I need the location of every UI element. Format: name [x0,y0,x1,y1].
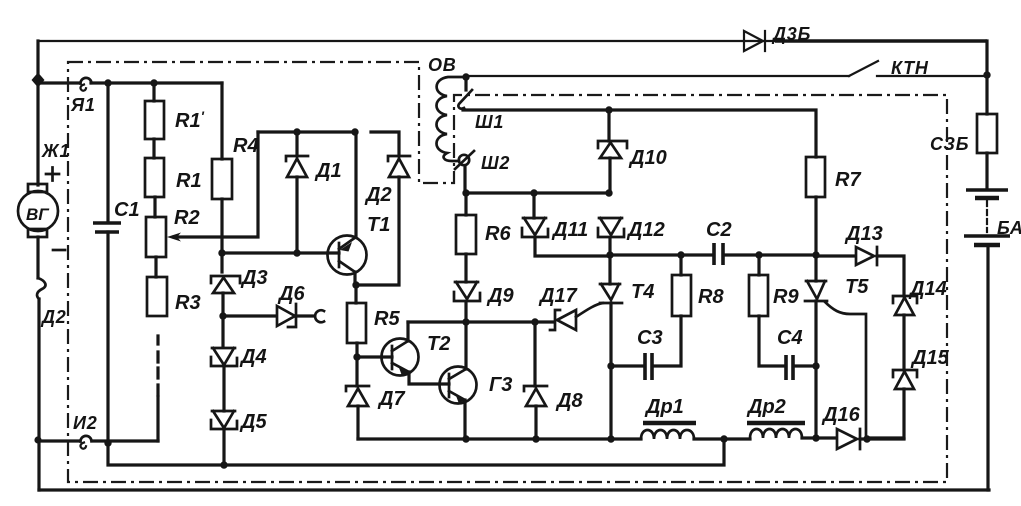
wire: Д2 top stub from bus [371,132,399,156]
wire: Д1 lower lead [295,177,298,253]
wire: R5 bottom to node [355,343,358,357]
zener Д10 [598,141,627,158]
node R5 bottom / T2 base [353,353,360,360]
svg-text:С4: С4 [777,327,803,349]
wire: Д7 bottom to ground rail corner [356,406,359,439]
svg-text:Ж1: Ж1 [41,141,70,161]
svg-text:Д4: Д4 [239,346,267,368]
label R1' [175,108,205,132]
label СЗБ [930,134,969,154]
label Д1 [314,160,342,182]
resistor R3 [147,277,167,316]
svg-text:R8: R8 [698,286,724,308]
label T4 [631,281,654,303]
node T4/C3 [607,362,614,369]
svg-text:ВГ: ВГ [26,205,50,224]
label Др1 [644,396,684,418]
svg-text:Ш2: Ш2 [481,153,510,173]
svg-text:С2: С2 [706,219,732,241]
diode Д7 [346,386,369,406]
label Д8 [555,390,583,412]
wire: T5 column leads [814,255,817,438]
node T1 emitter / R5 top [352,281,359,288]
svg-text:Др1: Др1 [644,396,684,418]
svg-text:Д11: Д11 [551,219,588,241]
svg-text:Д15: Д15 [910,347,950,369]
switch КТН blade [849,61,878,76]
wire: T2 collector up to y322 bus [406,322,409,341]
svg-text:R1': R1' [175,108,205,132]
node Др1-Др2 link / return riser [720,435,727,442]
wire: base wire y253 from R4 column to T1 base [222,251,339,254]
svg-text:Др2: Др2 [746,396,786,418]
svg-text:Д3: Д3 [240,267,268,289]
node T4 column on C2 bus [606,251,613,258]
label Д3Б [771,24,811,44]
wire: R2 wiper tap line with arrow [167,132,258,242]
wire: C4 to T5 column [794,364,816,367]
resistor R9 [749,275,768,316]
label Д13 [844,223,883,245]
svg-text:ОВ: ОВ [428,55,457,75]
wire: Д4 to Д5 [222,368,225,411]
wire: R1-R2 link [153,197,156,217]
node C1 bottom / left bottom wire [104,439,111,446]
node Д10 top on Ш1 bus [605,106,612,113]
svg-text:Д1: Д1 [314,160,342,182]
resistor СЗБ [977,114,997,153]
terminal Я1 [80,78,91,91]
svg-text:Т4: Т4 [631,281,654,303]
terminal Ш1 [458,81,472,109]
wire: C2 bus y255 right part [724,253,816,256]
label Д16 [821,404,861,426]
svg-text:Д6: Д6 [277,283,305,305]
svg-text:R4: R4 [233,135,259,157]
resistor R7 [806,157,825,197]
wire: T2 base wire [357,355,392,358]
wire: Д13 to Д14 column corner [877,256,904,296]
wire: Д6 branch wire [223,314,276,317]
label Д11 [551,219,588,241]
node Д8 on rail [532,435,539,442]
wire: left vertical from top corner down to generator [36,41,39,185]
label ОВ [428,55,457,75]
wire: Ш2 bus y193 [466,191,609,194]
svg-text:КТН: КТН [891,58,929,78]
label Д9 [486,285,514,307]
label R2 [174,207,200,229]
label БА [997,218,1021,238]
svg-text:Д3Б: Д3Б [771,24,811,44]
label C2 [706,219,732,241]
wire: Д17 to T4 gate curve [576,303,603,317]
zener Д5 [211,411,237,429]
wire: R8 bottom to C3 [653,316,681,366]
wire: R6 bottom to Д9 [464,254,467,282]
wire: КТН line left part [466,75,849,77]
label Я1 [70,95,96,115]
transistor T1 [328,236,367,275]
wire: T5 gate to Д16 node [825,302,866,437]
label Д17 [538,285,578,307]
zener Д4 [211,348,237,366]
wire: top line thick segment [775,39,987,43]
wire: R8 upper lead [679,255,682,275]
zener Д17 (points left) [550,310,576,330]
capacitor C3 [645,353,652,380]
wire: R9 upper lead [757,255,760,275]
label R6 [485,223,511,245]
node R9 top [755,251,762,258]
thyristor T4 [600,284,622,303]
svg-text:С1: С1 [114,199,140,221]
wire: R6 upper lead [464,193,467,215]
label Д2 [364,184,392,206]
label T5 [845,276,869,298]
wire: return wire from C1 column to rail riser [108,439,724,465]
label R3 [175,292,201,314]
resistor R8 [672,275,691,316]
node Д1 bottom [293,249,300,256]
terminal Б (open contact after Д6) [315,310,324,322]
zener Д15 [893,370,917,389]
node R8 top [677,251,684,258]
label Д10 [628,147,667,169]
wire: Д5 bottom to return rail [222,431,225,465]
wire: right side battery column top segment [985,41,988,114]
label Г3 [489,374,512,396]
node Г3 emitter on rail [462,435,469,442]
zener Д11 [522,218,548,237]
wire: СЗБ bottom to battery [985,153,988,188]
wire: Д10 leads [609,110,610,193]
wire: C3 to T4 column [611,364,644,367]
wire: R1'-R1 link [152,139,155,158]
wire: Д2 lower lead down to T1 emitter node [357,177,399,285]
wire: generator lower lead [36,237,39,278]
node T1 top [351,128,358,135]
wire: top supply line from generator to battery corner [38,40,987,42]
wire: R5 link from T1 emitter node [354,285,357,303]
wire: Д6 output to terminal [298,314,313,317]
wire: Д1 upper lead [295,132,298,156]
svg-text:Д5: Д5 [239,411,267,433]
label Ж1 [41,141,70,161]
wire: T2 emitter to Г3 base [409,372,449,384]
label Д3 [240,267,268,289]
node Д3 bottom / Д6 branch [219,312,226,319]
choke Др2 [747,423,805,438]
wire: right vertical below battery to bottom corner [986,246,989,490]
svg-text:Д16: Д16 [821,404,861,426]
svg-text:R6: R6 [485,223,511,245]
svg-text:R2: R2 [174,207,200,229]
battery БА [964,190,1010,245]
boundary: dash-dot enclosure [68,62,947,482]
terminal Ш2 (circle with slash) [455,151,474,169]
node R4 bottom [218,249,225,256]
svg-text:Т5: Т5 [845,276,869,298]
zener Д9 [454,282,480,301]
svg-text:Д13: Д13 [844,223,883,245]
label R9 [773,286,799,308]
svg-text:R1: R1 [176,170,202,192]
wire: R7 body lower lead [814,197,817,255]
wire: T4 column leads [610,255,611,439]
wire: Ш2 down to node [463,166,466,193]
svg-text:Д12: Д12 [626,219,665,241]
node Д10 bottom / Д12 top [605,189,612,196]
wire: Г3 collector up to y322 bus [464,322,467,369]
choke Др1 [641,423,696,439]
label КТН [891,58,929,78]
label R1 [176,170,202,192]
wire: Д13 branch from T5 column top [816,254,855,257]
label Д4 [239,346,267,368]
svg-text:Д2: Д2 [40,307,67,327]
svg-text:Д10: Д10 [628,147,667,169]
label T1 [367,214,390,236]
wire: C1 lower lead [106,232,109,443]
diode Д13 [856,247,877,265]
terminal Д2 (squiggle on generator negative lead) [37,278,45,299]
svg-text:Т1: Т1 [367,214,390,236]
resistor R1 [145,158,164,197]
svg-text:Д9: Д9 [486,285,514,307]
wire: armature horizontal wire y83 left part [38,81,80,84]
capacitor C1 [93,223,121,232]
svg-text:R7: R7 [835,169,861,191]
svg-text:Д2: Д2 [364,184,392,206]
svg-text:Т2: Т2 [427,333,450,355]
svg-text:R3: R3 [175,292,201,314]
svg-text:Д8: Д8 [555,390,583,412]
resistor R5 [347,303,366,343]
wire: rail Д16 to corner [860,437,904,440]
thyristor T5 [805,281,827,301]
label И2 [73,413,98,433]
svg-text:R9: R9 [773,286,799,308]
node generator column bottom [34,436,41,443]
wire: Д12 bottom to C2 bus [608,238,611,255]
wire: Д8 branch down [533,322,536,386]
svg-text:БА: БА [997,218,1021,238]
wire: T1 collector lead (top) [354,132,357,236]
wire: T1 emitter lead to node [353,272,356,285]
node Д1 top [293,128,300,135]
wire: left vertical below squiggle to bottom loop corner [37,299,40,490]
label C3 [637,327,663,349]
wire: C1 upper lead [106,83,109,222]
generator ВГ (armature circle with brushes) [18,184,58,237]
label Д6 [277,283,305,305]
resistor R1' [145,101,164,139]
resistor R6 [456,215,476,254]
wire: Г3 emitter down to ground rail [463,400,466,439]
node T5/C4 [812,362,819,369]
label Д14 [908,278,947,300]
wire: R2-R3 link [154,257,157,277]
label - (generator negative) [53,249,65,252]
wire: Д9 bottom to y322 bus [464,302,467,322]
wire: base bus y132 from wiper corner to T1 collector [258,130,355,133]
diode Д8 [524,386,547,406]
node Др2 / T5 column on rail [812,434,819,441]
label R8 [698,286,724,308]
svg-text:С3: С3 [637,327,663,349]
zener Д6 [277,304,296,327]
label Др2 [746,396,786,418]
label R5 [374,308,400,330]
label Ш2 [481,153,510,173]
wire: y322 bus (T2 collector to Д17) [408,320,553,323]
node Г3 collector on bus [462,318,469,325]
wire: Д11 leads and link to T4 column [534,193,610,256]
wire: Д3 chain column: R4 node down to Д3 [220,253,223,272]
diode Д2 [388,156,410,177]
node: junction diamond on armature wire [32,73,45,88]
wire: КТН line right part [877,75,987,77]
diode Д3Б on top line [744,31,765,51]
node R1' top [150,79,157,86]
wire: R3 bottom sketchy dashed drop [156,336,159,441]
node Д17/Д8 branch on bus [531,318,538,325]
wire: R9 bottom to C4 [759,316,785,366]
label Д7 [377,388,405,410]
node battery column / КТН [983,71,990,78]
wire: R4 bottom lead [220,199,223,253]
label Ш1 [475,112,504,132]
wire: C2 bus y255 left part [610,253,713,256]
node ОВ top [462,73,469,80]
svg-text:Д17: Д17 [538,285,578,307]
diode Д1 [286,156,308,177]
wire: left bottom wire from generator column [38,439,158,442]
terminal И2 [80,436,91,449]
capacitor C2 [714,243,723,265]
svg-text:СЗБ: СЗБ [930,134,969,154]
wire: Д14 to Д15 [902,315,905,370]
zener Д14 [893,296,917,315]
label + (generator positive) [46,168,59,181]
svg-text:Д14: Д14 [908,278,947,300]
capacitor C4 [786,355,793,380]
wire: Д3 to Д4 with node [221,293,224,347]
svg-text:Ш1: Ш1 [475,112,504,132]
svg-text:R5: R5 [374,308,400,330]
node Д16 / T5 gate on rail [863,435,870,442]
label R7 [835,169,861,191]
zener Д3 [211,276,240,293]
wire: armature horizontal wire y83 right part [91,81,222,84]
wire: R1' upper lead [152,83,155,101]
wire: bottom loop line [39,488,989,491]
resistor R4 [212,159,232,199]
node Ш2/R6 [462,189,469,196]
wire: R4 top lead from y83 [220,83,223,159]
node C1 top [104,79,111,86]
label C4 [777,327,803,349]
node R7 bottom / T5 column [812,251,819,258]
svg-text:Г3: Г3 [489,374,512,396]
zener Д12 [598,218,624,237]
label Д12 [626,219,665,241]
svg-text:И2: И2 [73,413,98,433]
node Д11 top [530,189,537,196]
label T2 [427,333,450,355]
node Д5 column on return wire [220,461,227,468]
wire: Ш1 bus y110 to R7 corner [463,110,816,157]
diode Д16 [837,429,860,449]
wire: Д8 bottom to ground rail [534,406,537,439]
label Д15 [910,347,950,369]
field winding ОВ [437,77,467,161]
svg-text:Д7: Д7 [377,388,405,410]
transistor Г3 [440,367,477,404]
label Д5 [239,411,267,433]
svg-text:Я1: Я1 [70,95,96,115]
label Д2 (left terminal) [40,307,67,327]
label C1 [114,199,140,221]
wire: Д15 bottom to rail corner [867,389,904,438]
wire: node to Д7 [355,357,358,386]
wire: ground rail y439 [358,438,836,439]
label R4 [233,135,259,157]
node T4 column on rail [607,435,614,442]
transistor T2 [382,339,419,376]
resistor R2 (with wiper) [146,217,166,257]
